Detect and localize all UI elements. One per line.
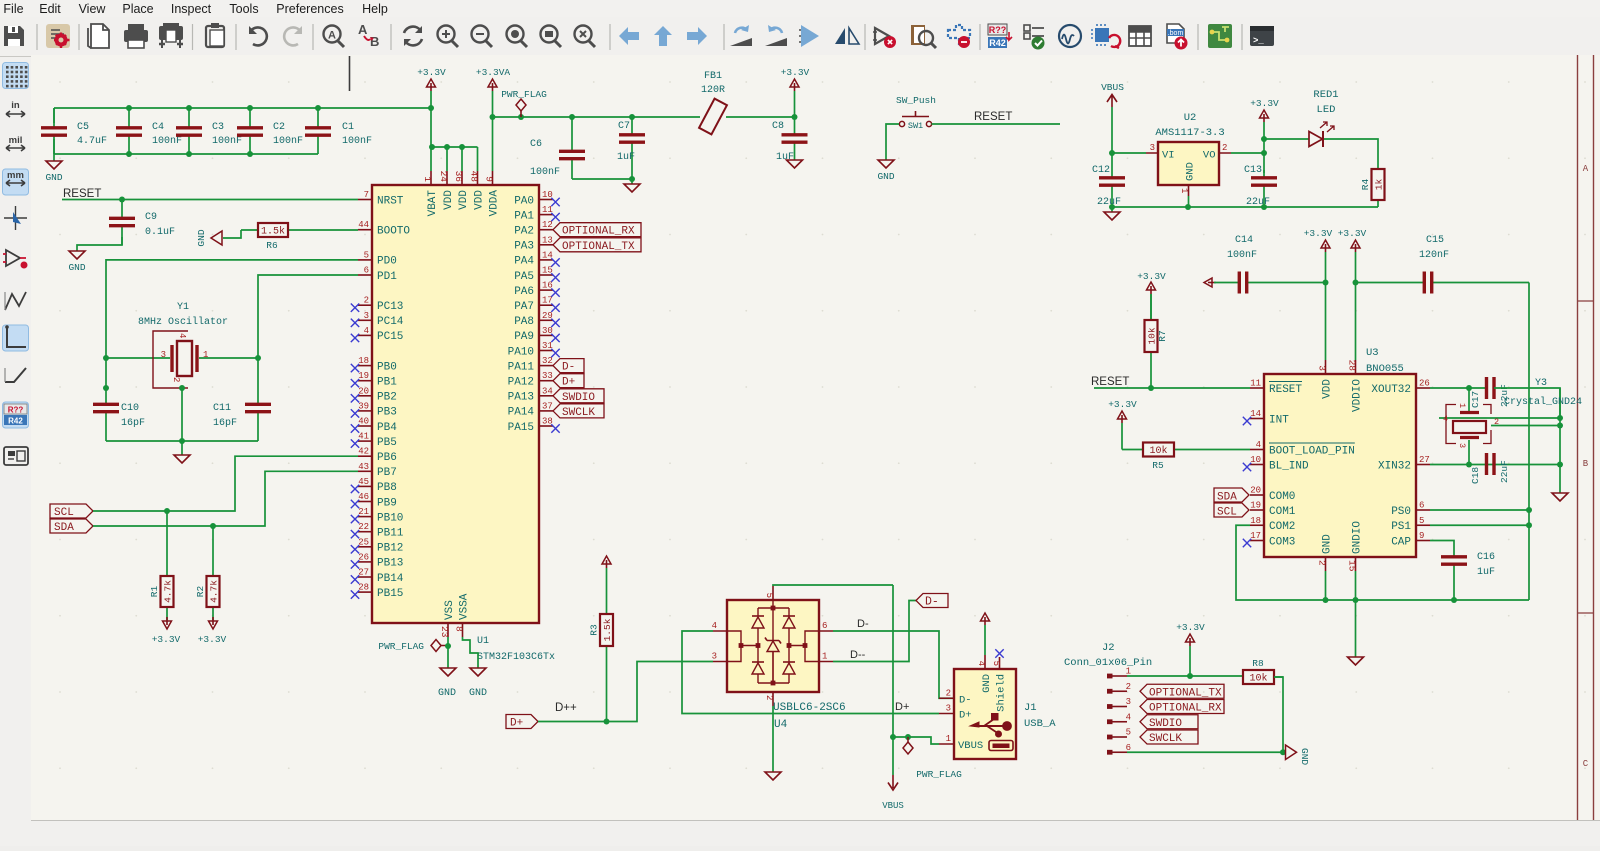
- svg-text:C11: C11: [213, 403, 231, 414]
- svg-text:+3.3V: +3.3V: [1304, 228, 1333, 239]
- svg-text:10: 10: [1250, 455, 1261, 465]
- svg-text:41: 41: [358, 432, 369, 442]
- svg-text:4.7uF: 4.7uF: [77, 136, 107, 147]
- svg-text:PA10: PA10: [508, 346, 534, 358]
- svg-text:C18: C18: [1470, 467, 1481, 484]
- svg-text:D-: D-: [959, 695, 972, 707]
- svg-text:VBUS: VBUS: [958, 740, 983, 752]
- svg-text:PB3: PB3: [377, 407, 397, 419]
- toolbar icon: erc check: [1024, 25, 1045, 50]
- svg-text:>_: >_: [1253, 36, 1264, 46]
- svg-text:42: 42: [358, 447, 369, 457]
- left toolbar icon: free angle wires: [5, 292, 26, 310]
- toolbar icon: hierarchy nav: [799, 25, 819, 47]
- svg-text:SCL: SCL: [54, 507, 74, 519]
- svg-text:2: 2: [364, 296, 369, 306]
- svg-text:B: B: [1583, 459, 1589, 469]
- power flag PWR_FLAG at VSS: [378, 640, 448, 653]
- grid dots (decorative): [59, 81, 1586, 769]
- power +3.3V at U2 output: [1250, 98, 1279, 173]
- global label D- at PA11: [553, 359, 584, 373]
- svg-text:1uF: 1uF: [617, 152, 635, 163]
- global label SWCLK at PA14: [553, 404, 604, 418]
- wire crystal pin1: [1468, 388, 1470, 411]
- wire +3.3V top rail: [54, 107, 431, 109]
- svg-text:.bom: .bom: [1168, 30, 1184, 37]
- svg-text:R42: R42: [8, 417, 23, 426]
- svg-text:46: 46: [358, 492, 369, 502]
- left toolbar icon: units mils: [6, 135, 25, 151]
- wire VBUS vertical: [892, 585, 894, 775]
- svg-text:8: 8: [454, 626, 465, 632]
- svg-text:120R: 120R: [701, 85, 725, 96]
- svg-text:22uF: 22uF: [1246, 197, 1270, 208]
- resistor R4: [1360, 169, 1385, 207]
- ground right of J2 pin6: [1286, 745, 1311, 765]
- svg-text:in: in: [11, 100, 20, 111]
- power VBUS (down arrow): [882, 775, 904, 811]
- svg-text:4: 4: [1126, 712, 1131, 722]
- global label SWCLK at J2 pin5: [1140, 730, 1198, 744]
- svg-text:NRST: NRST: [377, 195, 404, 207]
- svg-text:GNDIO: GNDIO: [1351, 521, 1363, 554]
- svg-text:PB4: PB4: [377, 422, 397, 434]
- svg-text:LED: LED: [1317, 104, 1336, 116]
- ground under U3: [1348, 657, 1364, 665]
- ground left of R6: [196, 229, 222, 246]
- svg-text:B: B: [370, 34, 379, 49]
- no-connect X at J1 Shield: [995, 649, 1003, 657]
- svg-text:1.5k: 1.5k: [261, 226, 285, 238]
- svg-text:PD0: PD0: [377, 256, 397, 268]
- wire U2 GND down: [1188, 196, 1190, 207]
- svg-text:44: 44: [358, 220, 369, 230]
- svg-text:6: 6: [1126, 743, 1131, 753]
- resistor R5: [1122, 443, 1250, 472]
- svg-text:4.7k: 4.7k: [163, 580, 174, 603]
- wire XIN32: [1430, 464, 1560, 466]
- svg-text:+3.3V: +3.3V: [1250, 98, 1279, 109]
- svg-text:A: A: [328, 30, 336, 42]
- svg-text:27: 27: [358, 568, 369, 578]
- svg-text:1k: 1k: [1374, 179, 1385, 191]
- svg-text:PB14: PB14: [377, 573, 404, 585]
- power +3.3V above J2: [1176, 622, 1205, 676]
- power arrow left of C14: [1208, 282, 1216, 284]
- svg-text:40: 40: [358, 417, 369, 427]
- svg-text:10k: 10k: [1149, 445, 1167, 457]
- toolbar icon: zoom out: [472, 26, 493, 48]
- global label OPTIONAL_TX at PA3: [553, 238, 641, 252]
- junction dots bottom rail: [126, 151, 132, 157]
- resistor R3: [589, 568, 614, 722]
- svg-text:D--: D--: [850, 649, 866, 661]
- svg-text:COM3: COM3: [1269, 536, 1295, 548]
- ground under C5: [45, 154, 62, 183]
- svg-text:SWCLK: SWCLK: [562, 407, 595, 419]
- svg-text:Y1: Y1: [177, 302, 189, 313]
- svg-text:PB2: PB2: [377, 392, 397, 404]
- wire COM2 to ground rail: [1236, 525, 1529, 600]
- junction dots top rail: [126, 105, 132, 111]
- global label SWDIO at J2 pin4: [1140, 715, 1198, 729]
- svg-text:9: 9: [1419, 531, 1424, 541]
- toolbar icon: assign footprints: [1091, 24, 1120, 48]
- wire RESET from SW1: [932, 123, 1061, 125]
- svg-text:8MHz Oscillator: 8MHz Oscillator: [138, 316, 228, 328]
- svg-text:10k: 10k: [1147, 327, 1158, 344]
- svg-text:1uF: 1uF: [1477, 567, 1495, 578]
- wire J1 GND pin4 up: [984, 625, 986, 655]
- svg-text:16pF: 16pF: [213, 418, 237, 429]
- wire VBUS to U2 VI: [1112, 152, 1146, 154]
- svg-text:3: 3: [364, 311, 369, 321]
- IC U3 BNO055: [1243, 347, 1430, 572]
- svg-text:D-: D-: [562, 362, 575, 374]
- wire PD1 to C11: [258, 275, 358, 403]
- wire XOUT32: [1430, 387, 1486, 389]
- svg-text:1: 1: [1457, 403, 1467, 408]
- wire PS1: [1430, 524, 1529, 526]
- junction dots VDD rail BNO: [1323, 280, 1329, 286]
- capacitor C12: [1092, 153, 1125, 208]
- resistor R2: [195, 526, 220, 620]
- svg-text:PA2: PA2: [514, 226, 534, 238]
- toolbar icon: browse library: [911, 25, 936, 48]
- power flag PWR_FLAG at VBUS: [903, 737, 962, 780]
- wire PD0 to Y1: [106, 260, 358, 403]
- svg-text:U3: U3: [1366, 347, 1379, 359]
- svg-text:33: 33: [542, 371, 553, 381]
- wire U4 pin2 to ground: [772, 706, 774, 772]
- svg-text:37: 37: [542, 401, 553, 411]
- wire C15 to ground rail: [1528, 283, 1530, 601]
- toolbar icon: zoom in: [438, 26, 459, 48]
- toolbar icon: bom: [1167, 24, 1188, 50]
- svg-text:SW1: SW1: [908, 121, 923, 131]
- svg-text:4: 4: [177, 333, 187, 338]
- power arrow above R3: [606, 560, 608, 568]
- svg-text:STM32F103C6Tx: STM32F103C6Tx: [477, 652, 555, 663]
- svg-text:6: 6: [822, 621, 827, 631]
- wire U4 pin6 to J1 D-: [833, 631, 954, 698]
- svg-text:3: 3: [1317, 365, 1328, 371]
- switch SW1 SW_Push: [896, 95, 936, 131]
- svg-text:36: 36: [453, 171, 464, 183]
- capacitor C11: [245, 403, 271, 441]
- svg-text:RESET: RESET: [1269, 384, 1302, 396]
- svg-text:3: 3: [712, 652, 717, 662]
- svg-text:7: 7: [364, 190, 369, 200]
- svg-text:PA13: PA13: [508, 392, 534, 404]
- power +3.3V above U3 VDD: [1304, 228, 1333, 252]
- ferrite bead FB1: [699, 71, 727, 134]
- svg-text:C14: C14: [1235, 235, 1253, 246]
- svg-text:1: 1: [822, 652, 827, 662]
- svg-text:6: 6: [364, 266, 369, 276]
- power +3.3V above C8: [781, 67, 810, 117]
- wire oscillator ground rail: [106, 440, 258, 442]
- svg-text:4: 4: [1256, 440, 1261, 450]
- svg-text:34: 34: [542, 386, 553, 396]
- capacitor C2: [237, 108, 303, 154]
- svg-text:PA1: PA1: [514, 210, 534, 222]
- svg-text:PWR_FLAG: PWR_FLAG: [916, 769, 962, 780]
- svg-text:OPTIONAL_TX: OPTIONAL_TX: [562, 241, 635, 253]
- svg-text:BOOT_LOAD_PIN: BOOT_LOAD_PIN: [1269, 445, 1355, 457]
- svg-text:Shield: Shield: [995, 674, 1007, 712]
- toolbar icon: nav back: [619, 27, 639, 45]
- svg-text:20: 20: [358, 386, 369, 396]
- power +3.3VA: [476, 67, 511, 117]
- svg-text:GND: GND: [469, 688, 487, 699]
- toolbar icon: undo: [249, 26, 267, 45]
- left toolbar icon: 45 deg wires: [5, 368, 26, 382]
- hier label D+ (bottom): [506, 715, 538, 729]
- svg-text:VSS: VSS: [444, 600, 456, 620]
- resistor R7: [1145, 294, 1169, 388]
- svg-text:R2: R2: [195, 586, 206, 598]
- wire VSSA to ground: [463, 637, 479, 668]
- svg-text:A: A: [1583, 164, 1589, 174]
- svg-text:VBAT: VBAT: [427, 190, 439, 217]
- wire +3.3VA filter rail: [493, 116, 701, 118]
- top toolbar: [0, 17, 1600, 57]
- status bar: [31, 820, 1600, 846]
- svg-text:RED1: RED1: [1313, 89, 1338, 101]
- capacitor C9: [109, 200, 175, 246]
- svg-text:D++: D++: [555, 702, 577, 714]
- svg-text:BOOTO: BOOTO: [377, 226, 410, 238]
- ground under VSS: [440, 668, 456, 676]
- svg-text:PB0: PB0: [377, 361, 397, 373]
- toolbar icon: leave sheet: [730, 25, 752, 46]
- hier label SDA at COM0: [1214, 488, 1249, 504]
- svg-text:5: 5: [1126, 728, 1131, 738]
- svg-text:PC13: PC13: [377, 301, 403, 313]
- global label D+ at PA12: [553, 374, 584, 388]
- sheet frame right border: [1578, 55, 1594, 820]
- svg-text:28: 28: [1347, 360, 1358, 372]
- svg-text:PB12: PB12: [377, 543, 403, 555]
- svg-text:PS0: PS0: [1391, 506, 1411, 518]
- wire crystal pin3: [1468, 440, 1470, 465]
- capacitor C14: [1214, 235, 1326, 294]
- svg-text:C3: C3: [212, 122, 224, 133]
- svg-text:5: 5: [364, 250, 369, 260]
- svg-text:SDA: SDA: [54, 522, 74, 534]
- svg-text:VBUS: VBUS: [1101, 82, 1124, 93]
- svg-text:+3.3V: +3.3V: [198, 634, 227, 645]
- toolbar icon: redo: [284, 26, 302, 45]
- svg-text:11: 11: [1250, 379, 1261, 389]
- svg-text:C6: C6: [530, 139, 542, 150]
- ground under Y1: [174, 441, 190, 463]
- svg-text:R??: R??: [989, 25, 1007, 35]
- capacitor C18: [1470, 453, 1510, 484]
- svg-text:USBLC6-2SC6: USBLC6-2SC6: [773, 702, 846, 714]
- toolbar icon: fields table: [1129, 26, 1151, 46]
- svg-text:4: 4: [976, 661, 986, 666]
- svg-text:VI: VI: [1162, 150, 1175, 162]
- svg-text:14: 14: [1250, 409, 1261, 419]
- svg-text:PB13: PB13: [377, 558, 403, 570]
- svg-text:PS1: PS1: [1391, 521, 1411, 533]
- svg-text:+3.3V: +3.3V: [1137, 271, 1166, 282]
- toolbar icon: annotate: [988, 24, 1012, 48]
- svg-text:RESET: RESET: [63, 188, 101, 200]
- wire crystal gnd vertical: [1559, 388, 1561, 493]
- svg-text:PA9: PA9: [514, 331, 534, 343]
- wire Y1 pin3: [106, 357, 170, 359]
- junction dots ground rail BNO: [1323, 597, 1329, 603]
- svg-text:100nF: 100nF: [273, 136, 303, 147]
- svg-text:PA11: PA11: [508, 361, 535, 373]
- svg-text:4: 4: [364, 326, 369, 336]
- power +3.3V above R5: [1108, 399, 1137, 450]
- svg-text:1: 1: [1179, 188, 1189, 193]
- svg-text:mm: mm: [7, 170, 24, 181]
- svg-text:+3.3V: +3.3V: [152, 634, 181, 645]
- svg-text:1: 1: [422, 176, 433, 182]
- left toolbar: [0, 57, 32, 846]
- svg-text:VDD: VDD: [443, 190, 455, 210]
- toolbar icon: zoom sel: [575, 26, 596, 48]
- svg-text:R7: R7: [1157, 330, 1168, 341]
- left toolbar icon: hierarchy tree: [4, 447, 28, 465]
- svg-text:VDDA: VDDA: [488, 190, 500, 217]
- svg-text:5: 5: [1419, 516, 1424, 526]
- wire C17 to crystal net: [1494, 388, 1560, 418]
- svg-text:PA14: PA14: [508, 407, 535, 419]
- svg-text:PB9: PB9: [377, 497, 397, 509]
- wire U4 pin5 top: [773, 585, 893, 586]
- LED RED1: [1264, 89, 1378, 169]
- global label SWDIO at PA13: [553, 389, 604, 403]
- svg-text:BL_IND: BL_IND: [1269, 460, 1309, 472]
- svg-text:SW_Push: SW_Push: [896, 95, 936, 106]
- wire crystal pin2/pin4: [1439, 417, 1560, 419]
- capacitor C5: [41, 108, 107, 154]
- svg-text:18: 18: [1250, 516, 1261, 526]
- svg-text:19: 19: [358, 371, 369, 381]
- capacitor C10: [93, 403, 119, 441]
- svg-text:VDD: VDD: [458, 190, 470, 210]
- svg-text:1uF: 1uF: [776, 152, 794, 163]
- toolbar icon: find replace: [358, 22, 379, 49]
- svg-text:+3.3V: +3.3V: [781, 67, 810, 78]
- svg-text:C12: C12: [1092, 165, 1110, 176]
- wire GND bottom rail: [54, 153, 318, 155]
- crystal Y3: [1443, 378, 1582, 448]
- svg-text:U4: U4: [774, 719, 788, 731]
- svg-text:2: 2: [171, 377, 181, 382]
- power flag PWR_FLAG near C6: [501, 89, 547, 117]
- svg-text:PA8: PA8: [514, 316, 534, 328]
- svg-text:PB7: PB7: [377, 467, 397, 479]
- wire VDDA feed: [492, 117, 494, 171]
- svg-text:INT: INT: [1269, 414, 1289, 426]
- svg-text:4: 4: [1443, 414, 1448, 424]
- svg-text:Y3: Y3: [1535, 378, 1547, 389]
- ground under VSSA: [470, 668, 486, 676]
- svg-text:Conn_01x06_Pin: Conn_01x06_Pin: [1064, 657, 1152, 669]
- svg-text:C9: C9: [145, 212, 157, 223]
- wire CAP to C16: [1430, 541, 1454, 554]
- capacitor C17: [1470, 377, 1510, 408]
- svg-text:XOUT32: XOUT32: [1371, 384, 1411, 396]
- svg-text:24: 24: [438, 171, 449, 183]
- capacitor C15: [1356, 235, 1530, 294]
- svg-text:BNO055: BNO055: [1366, 363, 1404, 375]
- capacitor C1: [305, 108, 372, 154]
- svg-text:PB1: PB1: [377, 377, 397, 389]
- wire PS0: [1430, 509, 1529, 511]
- svg-text:PC14: PC14: [377, 316, 404, 328]
- svg-text:CAP: CAP: [1391, 536, 1411, 548]
- svg-text:R4: R4: [1360, 179, 1371, 191]
- svg-text:10k: 10k: [1249, 673, 1267, 685]
- svg-text:VDDIO: VDDIO: [1351, 379, 1363, 412]
- toolbar icon: nav up: [654, 26, 672, 46]
- svg-text:27: 27: [1419, 455, 1430, 465]
- svg-text:GND: GND: [68, 262, 85, 273]
- svg-text:GND: GND: [981, 674, 993, 693]
- toolbar icon: open pcb: [1208, 24, 1232, 48]
- svg-text:+3.3V: +3.3V: [1108, 399, 1137, 410]
- svg-text:1: 1: [946, 734, 951, 744]
- left toolbar icon: cursor shape: [4, 206, 27, 230]
- svg-text:2: 2: [1317, 560, 1328, 566]
- svg-text:C16: C16: [1477, 552, 1495, 563]
- svg-text:PD1: PD1: [377, 271, 397, 283]
- svg-text:+3.3VA: +3.3VA: [476, 67, 511, 78]
- svg-text:20: 20: [1250, 486, 1261, 496]
- capacitor C3: [176, 108, 242, 154]
- toolbar icon: nav fwd: [687, 27, 707, 45]
- svg-text:GND: GND: [45, 172, 62, 183]
- svg-text:VSSA: VSSA: [458, 593, 470, 620]
- svg-text:XIN32: XIN32: [1378, 460, 1411, 472]
- toolbar icon: zoom page: [541, 26, 562, 48]
- ground symbol under C12: [1104, 207, 1120, 220]
- svg-text:PB10: PB10: [377, 512, 403, 524]
- svg-text:U2: U2: [1184, 112, 1197, 124]
- svg-text:19: 19: [1250, 501, 1261, 511]
- svg-text:PC15: PC15: [377, 331, 403, 343]
- wire VSS to ground: [447, 637, 449, 668]
- svg-text:3: 3: [1126, 697, 1131, 707]
- svg-text:PA15: PA15: [508, 422, 534, 434]
- svg-text:2: 2: [1494, 417, 1499, 427]
- capacitor C16: [1441, 552, 1495, 600]
- capacitor C13: [1244, 165, 1277, 208]
- ground under C8: [787, 160, 803, 168]
- wire R6 to ground: [223, 230, 241, 238]
- power +3.3V under R2: [198, 617, 227, 645]
- svg-text:48: 48: [469, 171, 480, 183]
- svg-text:SWDIO: SWDIO: [1149, 718, 1182, 730]
- wire Y1 pin1: [199, 357, 258, 359]
- svg-text:R3: R3: [589, 624, 600, 636]
- toolbar icon: paste: [206, 23, 224, 47]
- svg-text:3: 3: [946, 704, 951, 714]
- svg-text:J1: J1: [1024, 702, 1037, 714]
- IC U1 STM32F103C6Tx: [351, 171, 560, 663]
- svg-text:R1: R1: [149, 586, 160, 598]
- left toolbar icon: units inches: [6, 100, 25, 117]
- wire C9 to ground: [77, 237, 122, 251]
